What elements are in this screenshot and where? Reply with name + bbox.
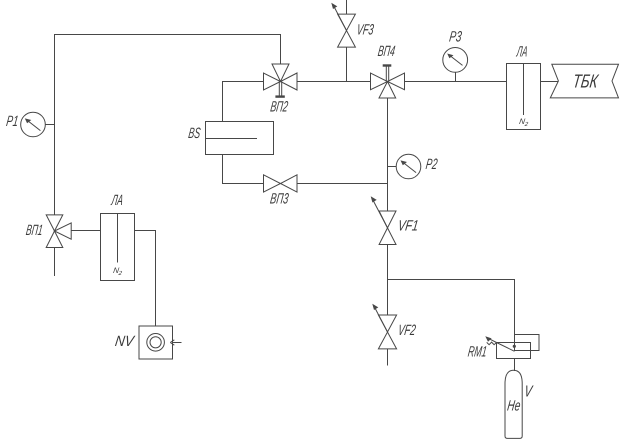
gauge P3 [443,48,468,73]
wire VP4 to LA right [405,81,507,83]
wire VP2 left to BS [223,82,264,123]
svg-text:P1: P1 [5,113,19,130]
svg-text:ВП1: ВП1 [25,222,44,239]
node P3 stub [455,72,457,81]
vessel BS [206,122,274,155]
node P1 stub [45,124,54,126]
wire NV right stub [173,342,182,344]
svg-text:VF3: VF3 [356,22,376,39]
svg-text:N2: N2 [112,266,123,277]
cylinder He [505,370,522,438]
wire branch to RM1 [388,280,515,335]
svg-text:ЛА: ЛА [515,44,528,61]
filter LA left [101,214,135,281]
wire LA to NV [135,231,156,326]
node P2 stub [388,166,397,168]
wire RM1 to cylinder [514,359,516,372]
valve VF2 (regulating) [372,304,396,349]
wire VF3 branch [346,47,348,81]
regulator RM1 [485,335,539,359]
svg-text:VF2: VF2 [397,322,417,339]
svg-text:BS: BS [187,125,201,142]
svg-text:NV: NV [114,333,137,350]
wire VP2 to VP4 [297,81,371,83]
valve VF3 (regulating) [331,3,355,47]
wire LA to TBK [541,81,559,83]
filter LA right [507,64,541,130]
svg-text:ТБК: ТБК [571,71,600,92]
valve VP3 [264,175,298,192]
wire VF3 top stub [346,0,348,14]
gauge P2 [396,154,421,179]
svg-text:N2: N2 [518,117,529,128]
wire VP3 to main pipe [297,183,388,185]
gauge P1 [21,112,46,137]
wire VP1 to LA filter [71,230,100,232]
wire top horizontal [55,35,281,215]
svg-text:RM1: RM1 [467,343,488,360]
wire VF2 bottom stub [387,349,389,366]
valve VP4 (3-way with handle) [371,66,405,99]
pump NV [139,326,174,359]
valve VP1 (3-way) [46,215,71,248]
svg-text:ВП2: ВП2 [269,99,289,116]
svg-text:V: V [523,383,534,401]
svg-text:ЛА: ЛА [110,192,124,209]
wire main vertical pipe [387,98,389,211]
node TBK banner [550,64,618,98]
svg-text:P2: P2 [425,156,439,173]
svg-text:ВП3: ВП3 [269,191,290,208]
wire VF1 to VF2 [387,245,389,316]
wire VP1 bottom stub [54,248,56,277]
svg-text:He: He [506,398,521,415]
svg-text:P3: P3 [448,28,463,45]
wire BS to VP3 [223,155,264,184]
valve VF1 (regulating) [371,196,396,244]
valve VP2 (3-way with handle) [264,64,298,97]
svg-text:VF1: VF1 [397,217,420,234]
svg-text:ВП4: ВП4 [377,43,396,60]
